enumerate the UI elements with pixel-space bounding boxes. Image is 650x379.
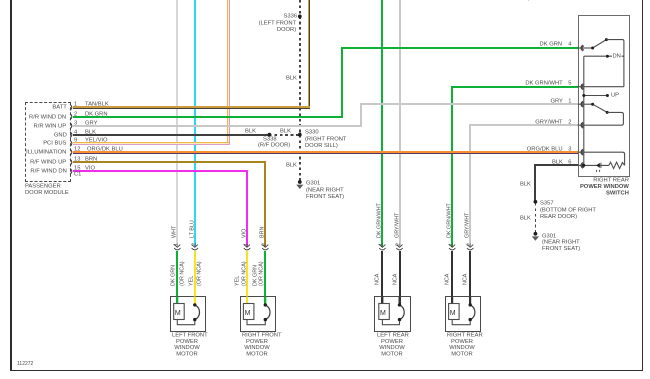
wire DK GRN/WHT vertical switch pin5 to right rear motor pin1 bbox=[451, 86, 453, 247]
label S357 bbox=[540, 200, 554, 206]
pin 6 number at switch bbox=[568, 159, 571, 165]
switch internal pin2 loop line bbox=[578, 112, 624, 125]
wire LT BLU vertical to left front motor pin2 bbox=[194, 0, 196, 247]
switch internal pin4 stub and blade bbox=[578, 38, 608, 49]
right rear power window motor box bbox=[445, 296, 481, 332]
label BLK at switch pin 6 bbox=[552, 159, 563, 165]
wire GRY/WHT vertical to left rear motor pin2 bbox=[399, 0, 401, 247]
label DK GRN/WHT rotated left rear bbox=[376, 203, 382, 238]
label (NEAR RIGHT FRONT SEAT) left bbox=[306, 187, 344, 200]
inline connector left front motor pin 2 bbox=[192, 245, 198, 250]
module pin 9 connector bbox=[70, 140, 72, 146]
wire BLK dashed vertical S357-G301 bbox=[535, 203, 537, 232]
label BLK right of S338 bbox=[280, 128, 291, 134]
switch pin 1 connector bbox=[581, 101, 584, 107]
wire TAN/BLK horizontal pin1 bbox=[73, 106, 310, 108]
switch internal resistor bbox=[609, 162, 625, 168]
label R/R WIN UP bbox=[34, 123, 67, 129]
label WHT rotated bbox=[171, 226, 177, 238]
wire VIO vertical to right front motor pin1 bbox=[246, 170, 248, 247]
pin 3 label GRY bbox=[85, 120, 97, 126]
label G301 right bbox=[542, 233, 556, 239]
label R/F WIND UP bbox=[30, 159, 66, 165]
wire DK GRN/WHT vertical to left rear motor pin1 bbox=[381, 0, 383, 247]
wire YEL/VIO horizontal pin9 bbox=[73, 142, 229, 143]
svg-text:M: M bbox=[245, 310, 251, 317]
pin 1 number right rear motor bbox=[448, 243, 454, 246]
wire BLK horizontal switch pin6 bbox=[534, 164, 578, 166]
pin 2 number left rear motor bbox=[395, 243, 401, 246]
inline connector right front motor pin 2 bbox=[262, 245, 268, 250]
ground G301 left bbox=[296, 180, 303, 189]
wire BLK dashed vertical S336-S330-G301 bbox=[299, 0, 301, 181]
border frame right bbox=[642, 0, 644, 371]
inline connector left rear motor pin 1 bbox=[379, 245, 385, 250]
pin 2 number right rear motor bbox=[466, 243, 472, 246]
svg-text:M: M bbox=[450, 310, 456, 317]
pin 4 number bbox=[74, 129, 77, 135]
label R/R WIND DN bbox=[29, 114, 66, 120]
switch internal pin3 illumination line bbox=[578, 152, 625, 165]
label (OR NCA) rotated lf pin2 bbox=[196, 261, 202, 286]
wire VIO horizontal pin15 bbox=[73, 170, 248, 172]
pin 12 label ORG/DK BLU bbox=[87, 146, 123, 152]
label PASSENGER DOOR MODULE bbox=[25, 183, 69, 196]
wire YEL (OR NCA) left front motor pin2 lower bbox=[194, 251, 196, 306]
label BRN rotated bbox=[259, 227, 265, 238]
svg-text:M: M bbox=[175, 310, 181, 317]
label LEFT FRONT POWER WINDOW MOTOR bbox=[172, 332, 202, 357]
module pin 4 connector bbox=[70, 132, 72, 138]
svg-text:M: M bbox=[380, 310, 386, 317]
wire TAN/BLK vertical from pin1 bbox=[308, 0, 310, 108]
splice S330 dot bbox=[298, 133, 302, 137]
label RIGHT REAR POWER WINDOW SWITCH bbox=[580, 177, 629, 196]
label (R/F DOOR) bbox=[258, 142, 290, 148]
inline connector right rear motor pin 2 bbox=[467, 245, 473, 250]
label 112272 diagram number bbox=[17, 361, 33, 367]
pin 2 number right front motor bbox=[261, 243, 267, 246]
wire NCA right rear motor pin1 lower bbox=[451, 251, 453, 304]
label YEL rotated lf pin2 bbox=[188, 275, 194, 285]
label RIGHT REAR POWER WINDOW MOTOR bbox=[447, 332, 477, 357]
label NCA rotated rr pin2 bbox=[462, 273, 468, 284]
left rear power window motor box bbox=[374, 296, 410, 332]
splice S357 dot bbox=[534, 200, 538, 204]
pin 15 label VIO bbox=[85, 165, 95, 171]
wire DK GRN (OR NCA) right front motor pin2 lower bbox=[264, 251, 266, 306]
pin 1 number at switch bbox=[568, 98, 571, 104]
label DK GRN rotated rf pin2 bbox=[252, 265, 258, 286]
label NCA rotated rr pin1 bbox=[444, 273, 450, 284]
wire ORG/DK BLU horizontal pin12 to switch pin3 bbox=[73, 151, 578, 153]
label (RIGHT FRONT DOOR SILL) bbox=[305, 136, 346, 149]
wire NCA left rear motor pin1 lower bbox=[381, 251, 383, 304]
wire BLK vertical switch pin6 to S357 bbox=[534, 164, 536, 202]
pin 9 number bbox=[74, 137, 77, 143]
wire GRY horizontal pin3 bbox=[73, 125, 362, 127]
label DK GRN at switch pin 4 bbox=[540, 41, 563, 47]
passenger door module box dashed bbox=[25, 102, 72, 182]
left rear motor internals bbox=[379, 296, 404, 324]
module pin 12 connector bbox=[70, 149, 72, 155]
switch internal rect top edge with DN dot bbox=[584, 55, 624, 58]
switch pin 3 connector bbox=[581, 149, 584, 155]
pin 15 number bbox=[74, 165, 80, 171]
wire DK GRN vertical jog at x342 bbox=[341, 47, 343, 118]
label DN bbox=[612, 53, 621, 59]
label G301 left bbox=[306, 180, 320, 186]
label YEL rotated rf pin1 bbox=[234, 275, 240, 285]
wire GRY/WHT vertical switch pin2 to right rear motor pin2 bbox=[469, 124, 471, 247]
label ILLUMINATION bbox=[26, 149, 66, 155]
wire YEL (OR NCA) right front motor pin1 lower bbox=[246, 251, 248, 304]
switch internal DN contact line bbox=[606, 40, 624, 87]
label RIGHT FRONT POWER WINDOW MOTOR bbox=[242, 332, 272, 357]
label (OR NCA) rotated rf pin1 bbox=[241, 261, 247, 286]
wire NCA left rear motor pin2 lower bbox=[399, 251, 401, 306]
label (NEAR RIGHT FRONT SEAT) right bbox=[542, 239, 580, 252]
switch pin 6 connector bbox=[581, 162, 584, 168]
pin 3 number bbox=[74, 120, 77, 126]
inline connector right front motor pin 1 bbox=[244, 245, 250, 250]
switch internal pin6 ground line bbox=[578, 164, 609, 167]
label cut off at top FRONT SEAT bbox=[492, 0, 530, 2]
wire WHT vertical to left front motor pin1 bbox=[176, 0, 178, 247]
switch pin 5 connector bbox=[581, 84, 584, 90]
right rear power window switch box bbox=[578, 15, 631, 177]
label LT BLU rotated bbox=[189, 220, 195, 238]
wire BRN horizontal pin13 bbox=[73, 161, 266, 163]
pin 9 label YEL/VIO bbox=[85, 137, 108, 143]
border frame bottom bbox=[10, 370, 643, 372]
pin 3 number at switch bbox=[568, 146, 571, 152]
inline connector left front motor pin 1 bbox=[174, 245, 180, 250]
label LEFT REAR POWER WINDOW MOTOR bbox=[377, 332, 407, 357]
switch internal pin1 stub and blade bbox=[578, 103, 609, 114]
wire GRY/WHT horizontal switch pin2 bbox=[469, 124, 578, 126]
splice S338 dot bbox=[268, 133, 272, 137]
pin 1 number left front motor bbox=[173, 243, 179, 246]
label GRY/WHT rotated left rear bbox=[394, 213, 400, 238]
wire BRN vertical to right front motor pin2 bbox=[264, 161, 266, 247]
wire NCA right rear motor pin2 lower bbox=[469, 251, 471, 306]
label BLK right ground chain lower bbox=[520, 215, 531, 221]
label PCI BUS bbox=[43, 140, 66, 146]
wire YEL/VIO vertical from pin9 bbox=[227, 0, 228, 145]
module pin 1 connector bbox=[70, 104, 72, 110]
pin 4 number at switch bbox=[568, 41, 571, 47]
pin 2 number bbox=[74, 111, 77, 117]
label VIO rotated bbox=[241, 229, 247, 238]
label S336 bbox=[283, 13, 297, 19]
module pin 15 connector bbox=[70, 168, 72, 174]
label GRY/WHT at switch pin 2 bbox=[535, 119, 562, 125]
left front power window motor box bbox=[170, 296, 206, 332]
label UP bbox=[611, 92, 619, 98]
splice S336 dot bbox=[298, 15, 302, 19]
inline connector right rear motor pin 1 bbox=[449, 245, 455, 250]
label DK GRN rotated below connector bbox=[170, 265, 176, 286]
switch internal left vertical bus bbox=[583, 56, 585, 165]
label GRY/WHT rotated right rear bbox=[464, 213, 470, 238]
label (OR NCA) rotated lf pin1 bbox=[179, 261, 185, 286]
label R/F WIND DN bbox=[30, 168, 66, 174]
label (OR NCA) rotated rf pin2 bbox=[258, 261, 264, 286]
switch internal UP contact line bbox=[582, 94, 609, 97]
left front motor internals bbox=[174, 296, 200, 324]
label (BOTTOM OF RIGHT REAR DOOR) bbox=[540, 207, 596, 220]
module pin 2 connector bbox=[70, 114, 72, 120]
wire BLK horizontal pin4 to S338 bbox=[73, 134, 270, 136]
pin 1 label TAN/BLK bbox=[85, 101, 109, 107]
wire DK GRN (OR NCA) left front motor pin1 lower bbox=[176, 251, 178, 304]
label BATT bbox=[52, 104, 66, 110]
label BLK left of S338 bbox=[245, 128, 256, 134]
label GND bbox=[53, 132, 66, 138]
label GRY at switch pin 1 bbox=[550, 98, 562, 104]
border frame left bbox=[10, 0, 12, 371]
pin 5 number at switch bbox=[568, 80, 571, 86]
pin 12 number bbox=[74, 146, 80, 152]
right front power window motor box bbox=[240, 296, 277, 332]
pin 2 number left front motor bbox=[191, 243, 197, 246]
connector C1 label bbox=[74, 171, 81, 177]
switch pin 4 connector bbox=[581, 45, 584, 51]
label S338 (R/F DOOR) bbox=[263, 136, 277, 142]
wire DK GRN horizontal to switch pin4 bbox=[341, 47, 578, 49]
pin 1 number right front motor bbox=[243, 243, 249, 246]
wire GRY vertical jog at x360 bbox=[360, 103, 362, 126]
pin 1 number left rear motor bbox=[378, 243, 384, 246]
pin 4 label BLK bbox=[85, 129, 96, 135]
pin 13 number bbox=[74, 156, 80, 162]
switch internal inline connector symbol on pin6 line bbox=[596, 163, 601, 172]
ground G301 right bbox=[532, 232, 539, 241]
wire DK GRN/WHT horizontal switch pin5 bbox=[451, 86, 578, 88]
label DK GRN/WHT at switch pin 5 bbox=[525, 80, 562, 86]
switch internal pin5 bus line bbox=[578, 86, 624, 88]
inline connector left rear motor pin 2 bbox=[396, 245, 402, 250]
module pin 3 connector bbox=[70, 123, 72, 129]
label (LEFT FRONT DOOR) bbox=[259, 20, 297, 33]
wire BLK dashed horizontal S338-S330 bbox=[269, 134, 299, 136]
label S330 bbox=[305, 129, 319, 135]
pin 2 label DK GRN bbox=[85, 111, 108, 117]
right front motor internals bbox=[243, 296, 270, 324]
label BLK on dashed wire upper bbox=[286, 75, 297, 81]
label BLK on dashed wire above G301 bbox=[286, 162, 297, 168]
label NCA rotated lr pin1 bbox=[374, 273, 380, 284]
right rear motor internals bbox=[449, 296, 475, 324]
pin 1 number bbox=[74, 101, 77, 107]
wire DK GRN horizontal pin2 bbox=[73, 116, 343, 118]
switch pin 2 connector bbox=[581, 122, 584, 128]
pin 13 label BRN bbox=[85, 156, 97, 162]
module pin 13 connector bbox=[70, 159, 72, 165]
label NCA rotated lr pin2 bbox=[392, 273, 398, 284]
label BLK right ground chain upper bbox=[520, 181, 531, 187]
wire GRY horizontal to switch pin1 bbox=[360, 103, 579, 105]
label ORG/DK BLU at switch pin 3 bbox=[527, 146, 563, 152]
label DK GRN/WHT rotated right rear bbox=[446, 203, 452, 238]
pin 2 number at switch bbox=[568, 119, 571, 125]
